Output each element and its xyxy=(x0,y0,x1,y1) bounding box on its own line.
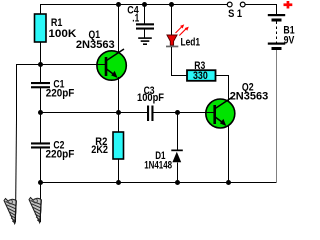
LED Led1 xyxy=(166,24,200,48)
wire Q1 emitter lead xyxy=(118,79,120,113)
wire top rail right (S1 to battery +) xyxy=(245,5,277,15)
svg-text:2K2: 2K2 xyxy=(91,144,108,156)
svg-text:2N3563: 2N3563 xyxy=(76,39,115,51)
wire Q2 emitter lead xyxy=(228,127,230,183)
transistor Q2 2N3563 xyxy=(206,82,269,128)
switch S1 xyxy=(227,2,245,20)
svg-text:100pF: 100pF xyxy=(137,92,164,104)
junction node C (Q1 emitter/R2/mid rail) xyxy=(116,110,121,115)
svg-text:9V: 9V xyxy=(284,34,295,46)
wire touch plate 2 lead xyxy=(40,183,42,222)
junction D1 / ground rail xyxy=(175,180,180,185)
wire C2 top lead xyxy=(40,113,42,142)
junction top rail / C4 xyxy=(142,2,147,7)
wire D1 cathode lead xyxy=(177,113,179,151)
junction top rail / Q1 collector xyxy=(116,2,121,7)
wire C1 bottom lead xyxy=(40,88,42,113)
wire R3 to Q2 collector xyxy=(216,76,230,102)
wire Led1 bottom lead to R3 xyxy=(172,47,188,76)
svg-text:1N4148: 1N4148 xyxy=(144,160,172,172)
wire Q1 base net (left corner to base) xyxy=(16,65,98,121)
wire R1 top lead xyxy=(40,5,42,15)
svg-text:100K: 100K xyxy=(48,28,76,40)
junction R2 / ground rail xyxy=(116,180,121,185)
junction node G1 (C2/ground rail/touch plate 2) xyxy=(38,180,43,185)
capacitor C1 xyxy=(31,79,75,100)
svg-text:Led1: Led1 xyxy=(181,37,201,49)
wire C1 top lead xyxy=(40,65,42,82)
wire Q1 collector lead xyxy=(118,5,120,54)
resistor R2 xyxy=(91,132,123,159)
junction node A (R1/C1/Q1 base) xyxy=(38,62,43,67)
transistor Q1 2N3563 xyxy=(76,29,126,80)
wire R2 bottom lead xyxy=(118,159,120,183)
resistor R1 xyxy=(35,14,77,42)
battery B1 plus sign xyxy=(284,1,293,9)
capacitor C2 xyxy=(31,139,75,160)
touch plate P2 xyxy=(29,198,41,223)
ground symbol (C4) xyxy=(138,37,152,45)
wire D1 anode lead xyxy=(177,163,179,184)
diode D1 1N4148 xyxy=(144,150,183,172)
svg-text:.1: .1 xyxy=(132,12,139,24)
resistor R3 xyxy=(187,60,216,82)
wire top rail left (V+ from R1 to S1) xyxy=(40,4,227,6)
svg-text:2N3563: 2N3563 xyxy=(230,90,269,102)
junction node B (C1/C2/mid rail) xyxy=(38,110,43,115)
wire R1 bottom lead xyxy=(40,42,42,65)
wire touch plate 1 lead xyxy=(16,120,17,222)
touch plate P1 xyxy=(4,199,16,224)
wire C4 bottom lead xyxy=(144,30,146,38)
wire battery negative lead xyxy=(276,50,278,183)
wire ground rail xyxy=(41,182,278,184)
wire R2 top lead xyxy=(118,113,120,132)
wire Led1 top lead xyxy=(171,5,173,36)
wire mid rail (node B to C3) xyxy=(41,112,148,114)
wire C4 top lead xyxy=(144,5,146,25)
wire C2 bottom lead xyxy=(40,149,42,184)
wire mid rail (C3 to Q2 base) xyxy=(154,112,207,114)
battery B1 xyxy=(268,14,295,50)
svg-text:330: 330 xyxy=(193,70,208,82)
svg-text:220pF: 220pF xyxy=(46,149,75,161)
capacitor C4 xyxy=(127,4,154,29)
junction top rail / Led1 xyxy=(169,2,174,7)
junction Q2 emitter / ground rail xyxy=(226,180,231,185)
svg-text:S 1: S 1 xyxy=(228,8,242,20)
junction node D (C3/D1/Q2 base) xyxy=(175,110,180,115)
svg-text:220pF: 220pF xyxy=(46,88,75,100)
capacitor C3 xyxy=(137,85,164,121)
